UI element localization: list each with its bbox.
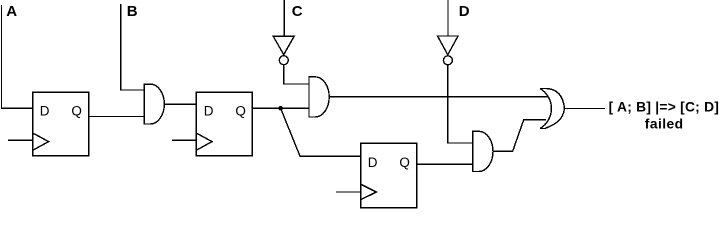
wire G5 out to OR gate lower input [493, 120, 546, 152]
flip-flop U2 body [196, 92, 252, 156]
svg-text:D: D [40, 103, 50, 118]
or-gate G6 bottom wing [540, 109, 565, 129]
flip-flop U1 body [33, 92, 89, 156]
wire B to AND G1 [121, 4, 145, 90]
U1 clock stub [8, 139, 33, 141]
svg-text:B: B [127, 3, 138, 20]
junction node [278, 106, 283, 111]
U1 clock wedge [33, 133, 49, 150]
wire U3 Q to AND G5 lower input [417, 163, 473, 165]
svg-text:D: D [459, 3, 470, 20]
and-gate G1 [144, 84, 164, 124]
U3 clock stub [336, 191, 361, 193]
inverter G3 triangle [273, 36, 294, 54]
svg-text:Q: Q [235, 103, 246, 118]
svg-text:D: D [368, 155, 378, 170]
svg-text:C: C [292, 3, 303, 20]
wire junction diagonal to FF3 D [281, 108, 361, 156]
U3 clock wedge [361, 184, 377, 200]
svg-text:[ A; B] |=> [C; D]: [ A; B] |=> [C; D] [609, 100, 720, 115]
wire inverted C to AND G2 upper input [284, 65, 309, 84]
U2 clock stub [172, 139, 196, 141]
wire inverted D to AND G5 upper input [448, 65, 473, 143]
svg-text:failed: failed [645, 116, 684, 131]
and-gate G5 [473, 131, 493, 171]
wire U2 Q to AND G2 lower input [252, 107, 309, 109]
svg-text:A: A [6, 3, 17, 20]
wire A to FF1 D [2, 5, 33, 108]
svg-text:Q: Q [399, 155, 410, 170]
wire D into inverter [447, 0, 449, 36]
svg-text:D: D [204, 103, 214, 118]
inverter G4 bubble [443, 56, 452, 65]
inverter G3 bubble [279, 56, 288, 65]
wire G6 output [565, 108, 606, 110]
wire C into inverter [283, 0, 285, 36]
svg-text:Q: Q [71, 103, 82, 118]
and-gate G2 [309, 77, 329, 117]
wire U1 Q to AND G1 [89, 116, 145, 118]
inverter G4 triangle [438, 36, 459, 55]
or-gate G6 back arc [540, 89, 551, 129]
U2 clock wedge [196, 133, 212, 150]
wire G2 out to OR gate upper input [329, 96, 548, 98]
flip-flop U3 body [361, 143, 417, 208]
wire G1 out to FF2 D [164, 103, 196, 105]
or-gate G6 top wing [540, 89, 565, 109]
